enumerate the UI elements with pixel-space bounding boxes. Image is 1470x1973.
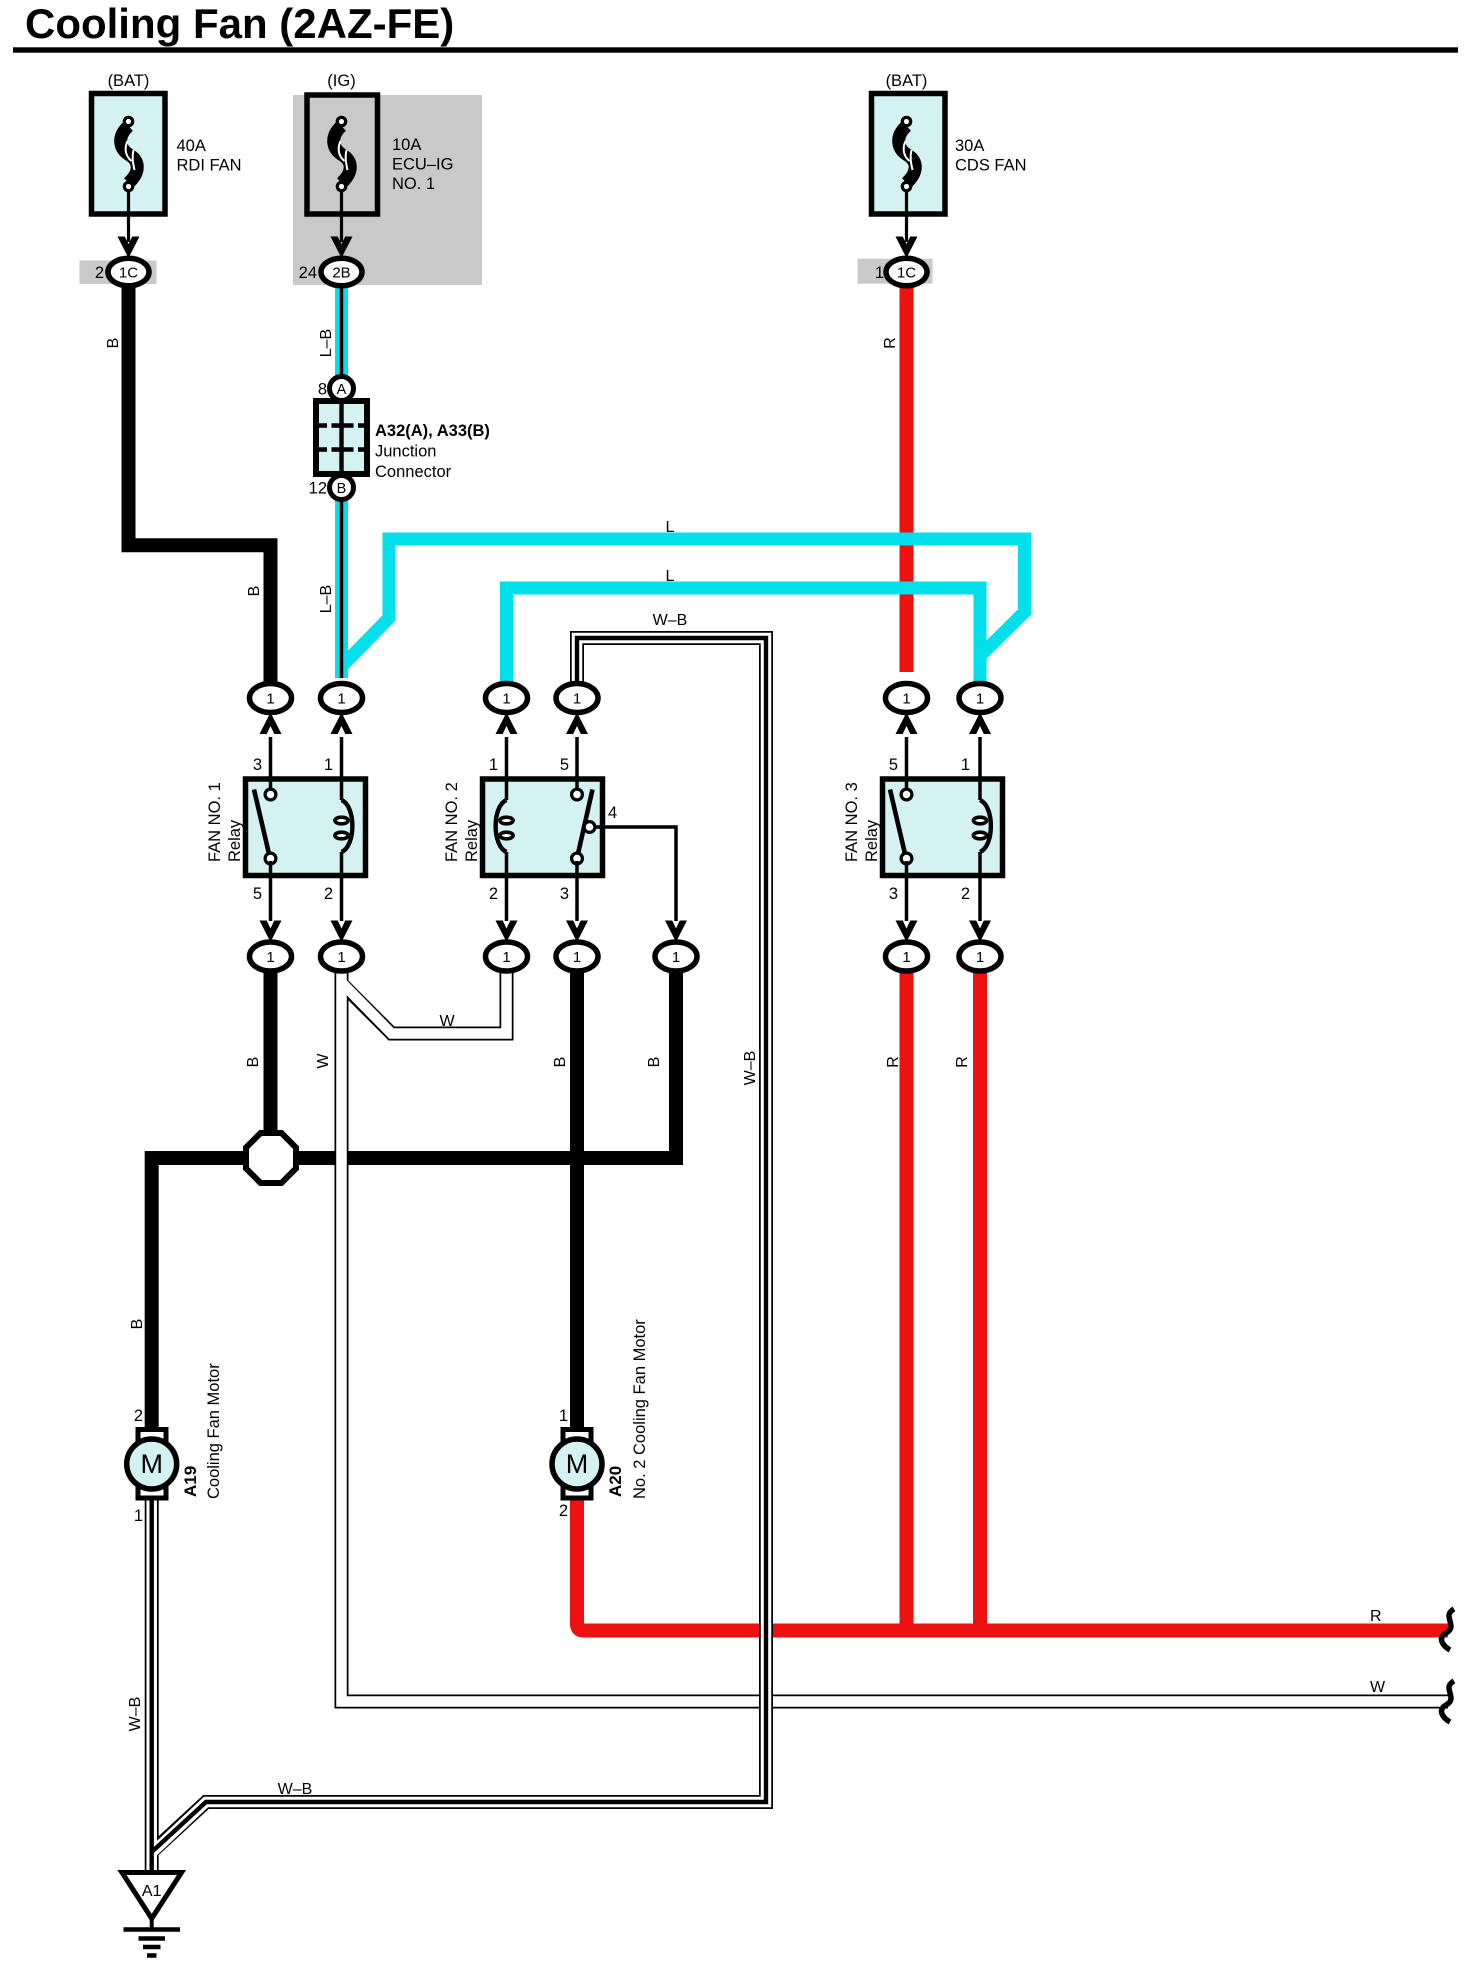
svg-text:W–B: W–B	[742, 1051, 759, 1086]
relay FAN NO.2 pin stub wires and pin 4 wire	[507, 737, 677, 921]
svg-text:3: 3	[560, 885, 569, 903]
svg-text:L: L	[666, 568, 675, 585]
svg-text:M: M	[566, 1449, 589, 1479]
relay FAN NO.1	[246, 779, 366, 876]
svg-text:1: 1	[902, 691, 910, 708]
svg-text:1: 1	[489, 756, 498, 774]
svg-text:No. 2 Cooling Fan Motor: No. 2 Cooling Fan Motor	[631, 1319, 649, 1499]
svg-text:Cooling Fan Motor: Cooling Fan Motor	[205, 1363, 223, 1499]
connector 1C arrow (right)	[896, 237, 918, 259]
svg-text:1: 1	[875, 264, 884, 282]
svg-text:2: 2	[324, 885, 333, 903]
relay FAN NO.3 pin stub wires	[907, 737, 981, 921]
svg-text:5: 5	[560, 756, 569, 774]
svg-text:NO. 1: NO. 1	[392, 175, 435, 193]
svg-text:A: A	[337, 382, 347, 398]
svg-text:2B: 2B	[332, 265, 350, 282]
svg-text:1: 1	[573, 949, 581, 966]
bottom connector row: FAN NO.1 pin2 connector	[321, 921, 363, 972]
connector 1C arrow (left)	[118, 237, 140, 259]
wire B from fuse RDI FAN connector 1C to FAN NO.1 relay pin 3 connector	[129, 280, 271, 684]
svg-text:L–B: L–B	[318, 329, 335, 357]
connector 2B arrow	[331, 237, 353, 259]
shaded junction-block panel behind ECU-IG fuse	[293, 95, 482, 285]
svg-text:L–B: L–B	[318, 585, 335, 613]
wire L (second) from FAN NO.2 relay pin 1 connector to FAN NO.3 relay pin 1 connector	[507, 588, 981, 684]
svg-text:W: W	[315, 1053, 332, 1069]
wire B from FAN NO.1 relay pin 5 connector through junction J to motor A19 pin 2	[152, 965, 676, 1435]
svg-text:(BAT): (BAT)	[108, 72, 150, 90]
connector 2B oval, pin 24	[321, 258, 362, 286]
bottom connector row: FAN NO.2 pin2 connector	[486, 921, 528, 972]
relay FAN NO.1 pin stub wires	[271, 737, 342, 921]
ground A1	[122, 1873, 182, 1956]
wire L (top) from L-B branch to FAN NO.3 relay pin 1 connector	[343, 539, 1025, 665]
break symbol W wire right edge	[1441, 1681, 1454, 1722]
svg-text:R: R	[885, 1056, 902, 1068]
wire R from FAN NO.3 relay pin 2 connector down to horizontal R run	[973, 965, 987, 1631]
svg-text:R: R	[882, 337, 899, 349]
bottom connector row: FAN NO.2 pin4 connector	[655, 921, 697, 972]
junction J octagon	[246, 1133, 296, 1183]
top connector row: FAN NO.3 pin5 connector	[886, 684, 928, 735]
svg-text:B: B	[105, 338, 122, 349]
svg-text:1: 1	[961, 756, 970, 774]
fuse 10A ECU-IG NO.1	[307, 95, 378, 242]
connector 1C oval (left), pin 2	[108, 258, 149, 286]
svg-text:RDI FAN: RDI FAN	[177, 157, 242, 175]
wire R horizontal run from motor A20 pin 2 to right-edge break	[577, 1493, 1448, 1631]
svg-text:1: 1	[266, 949, 274, 966]
top connector row: FAN NO.3 pin1 connector	[959, 684, 1001, 735]
svg-text:1: 1	[976, 949, 984, 966]
gray strip behind connector 1C (left)	[80, 261, 157, 285]
svg-text:1: 1	[134, 1507, 143, 1525]
svg-text:B: B	[552, 1057, 569, 1068]
svg-text:5: 5	[253, 885, 262, 903]
svg-text:2: 2	[559, 1502, 568, 1520]
bottom connector row: FAN NO.1 pin5 connector	[250, 921, 292, 972]
svg-text:Relay: Relay	[226, 819, 244, 862]
svg-text:1C: 1C	[897, 265, 916, 282]
relay FAN NO.2	[483, 779, 603, 876]
svg-text:1: 1	[337, 691, 345, 708]
svg-text:1: 1	[502, 949, 510, 966]
svg-text:W–B: W–B	[653, 612, 688, 629]
svg-text:30A: 30A	[955, 137, 984, 155]
svg-text:A1: A1	[142, 1883, 162, 1900]
svg-text:B: B	[337, 481, 347, 497]
svg-text:Relay: Relay	[463, 819, 481, 862]
svg-text:1: 1	[976, 691, 984, 708]
svg-text:5: 5	[889, 756, 898, 774]
wire R from fuse CDS FAN connector 1C to FAN NO.3 relay pin 5 connector	[900, 280, 914, 672]
svg-text:B: B	[129, 1319, 146, 1330]
fuse 30A CDS FAN	[872, 94, 946, 243]
svg-text:B: B	[646, 1057, 663, 1068]
svg-text:Relay: Relay	[863, 819, 881, 862]
svg-text:FAN NO. 1: FAN NO. 1	[206, 782, 224, 862]
svg-text:B: B	[245, 1057, 262, 1068]
svg-text:4: 4	[608, 804, 617, 822]
svg-text:10A: 10A	[392, 136, 421, 154]
svg-text:1: 1	[559, 1407, 568, 1425]
connector 1C oval (right), pin 1	[886, 258, 927, 286]
svg-text:1: 1	[502, 691, 510, 708]
svg-text:B: B	[246, 586, 263, 597]
svg-text:3: 3	[889, 885, 898, 903]
svg-text:3: 3	[253, 756, 262, 774]
wire R from FAN NO.3 relay pin 3 connector down to horizontal R run	[900, 965, 914, 1631]
svg-text:1: 1	[337, 949, 345, 966]
svg-text:Junction: Junction	[375, 443, 436, 461]
top connector row: FAN NO.2 pin1 connector	[486, 684, 528, 735]
wire W-B from FAN NO.2 relay pin 5 connector looping over and down to ground run; also motor A19 pin 1 to ground A1	[152, 638, 766, 1876]
svg-text:A19: A19	[181, 1466, 200, 1497]
top connector row: FAN NO.1 pin1 connector	[321, 684, 363, 735]
svg-text:1: 1	[902, 949, 910, 966]
top connector row: FAN NO.2 pin5 connector	[556, 684, 598, 735]
svg-text:1: 1	[266, 691, 274, 708]
bottom connector row: FAN NO.3 pin2 connector	[959, 921, 1001, 972]
svg-text:Cooling Fan (2AZ-FE): Cooling Fan (2AZ-FE)	[25, 0, 454, 47]
svg-text:L: L	[666, 519, 675, 536]
junction connector A32(A) A33(B)	[316, 377, 367, 500]
svg-text:(IG): (IG)	[327, 72, 355, 90]
svg-text:(BAT): (BAT)	[886, 72, 928, 90]
svg-text:24: 24	[299, 264, 317, 282]
svg-text:CDS FAN: CDS FAN	[955, 157, 1027, 175]
svg-text:40A: 40A	[177, 137, 206, 155]
svg-text:W: W	[439, 1013, 455, 1030]
bottom connector row: FAN NO.3 pin3 connector	[886, 921, 928, 972]
svg-text:12: 12	[309, 480, 327, 498]
svg-text:R: R	[954, 1056, 971, 1068]
svg-text:2: 2	[134, 1407, 143, 1425]
svg-text:M: M	[140, 1449, 163, 1479]
svg-text:FAN NO. 3: FAN NO. 3	[843, 782, 861, 862]
bottom connector row: FAN NO.2 pin3 connector	[556, 921, 598, 972]
wire L-B from connector 2B through junction connector to FAN NO.1 relay pin 1 connector	[335, 280, 348, 678]
svg-text:1: 1	[573, 691, 581, 708]
svg-text:FAN NO. 2: FAN NO. 2	[443, 782, 461, 862]
motor A20 No.2 Cooling Fan Motor	[552, 1430, 602, 1499]
svg-text:A32(A), A33(B): A32(A), A33(B)	[375, 422, 490, 440]
svg-text:A20: A20	[606, 1466, 625, 1497]
top connector row: FAN NO.1 pin3 connector	[250, 684, 292, 735]
svg-text:2: 2	[95, 264, 104, 282]
motor A19 Cooling Fan Motor	[127, 1430, 177, 1499]
svg-text:1C: 1C	[119, 265, 138, 282]
svg-text:W: W	[1370, 1679, 1386, 1696]
svg-text:Connector: Connector	[375, 463, 452, 481]
break symbol R wire right edge	[1441, 1609, 1454, 1650]
gray strip behind connector 1C (right)	[858, 259, 933, 284]
svg-text:1: 1	[324, 756, 333, 774]
svg-text:ECU–IG: ECU–IG	[392, 156, 453, 174]
svg-text:8: 8	[318, 381, 327, 399]
wire W from FAN NO.1 relay pin 2 connector, branch to FAN NO.2 relay pin 2, down to right-edge break	[342, 963, 1449, 1702]
svg-text:W–B: W–B	[127, 1697, 144, 1732]
fuse 40A RDI FAN	[92, 94, 166, 243]
svg-text:2: 2	[961, 885, 970, 903]
svg-text:1: 1	[672, 949, 680, 966]
svg-text:R: R	[1370, 1608, 1382, 1625]
svg-text:W–B: W–B	[278, 1781, 313, 1798]
svg-text:2: 2	[489, 885, 498, 903]
relay FAN NO.3	[883, 779, 1003, 876]
